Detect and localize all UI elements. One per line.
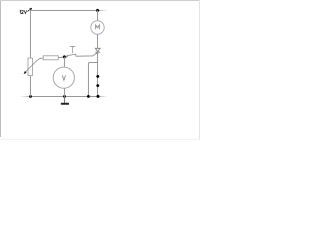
wire bottom rail [31, 95, 99, 97]
wire SCR cathode vertical [97, 52, 99, 97]
label 12V [20, 10, 27, 13]
wire voltmeter bottom [63, 88, 65, 96]
node bottom right junction [96, 95, 100, 99]
motor M1 [91, 21, 104, 34]
node switch contact upper [96, 75, 100, 79]
border frame [0, 0, 200, 140]
wire bottom rail fading stub left [20, 95, 31, 97]
wire voltmeter top [63, 57, 65, 67]
push switch S1 [64, 46, 76, 57]
wire top rail fading stub [98, 9, 109, 11]
resistor R1 [43, 56, 58, 60]
node bottom left junction [29, 95, 33, 99]
wire top rail [31, 9, 99, 11]
wire motor top [97, 10, 99, 21]
wire cathode branch with rounded corner [88, 63, 97, 97]
wire potentiometer bottom [29, 76, 31, 97]
node bottom mid junction [63, 95, 67, 99]
wire left vertical [29, 10, 31, 58]
ground [61, 103, 69, 105]
node top junction [96, 9, 100, 13]
power supply terminal arrow [27, 8, 32, 12]
wire resistor to node A [58, 56, 64, 59]
thyristor Q1 [95, 48, 100, 54]
node switch contact lower [96, 84, 100, 88]
wire bottom rail fading stub right [98, 95, 108, 97]
wire motor bottom to SCR anode [97, 34, 99, 48]
node A junction [63, 55, 67, 59]
ground stem [64, 97, 66, 104]
node bottom branch junction [87, 95, 91, 99]
wire switch to SCR gate [76, 53, 98, 57]
potentiometer VR1 [24, 58, 44, 76]
voltmeter V1 [53, 67, 74, 88]
